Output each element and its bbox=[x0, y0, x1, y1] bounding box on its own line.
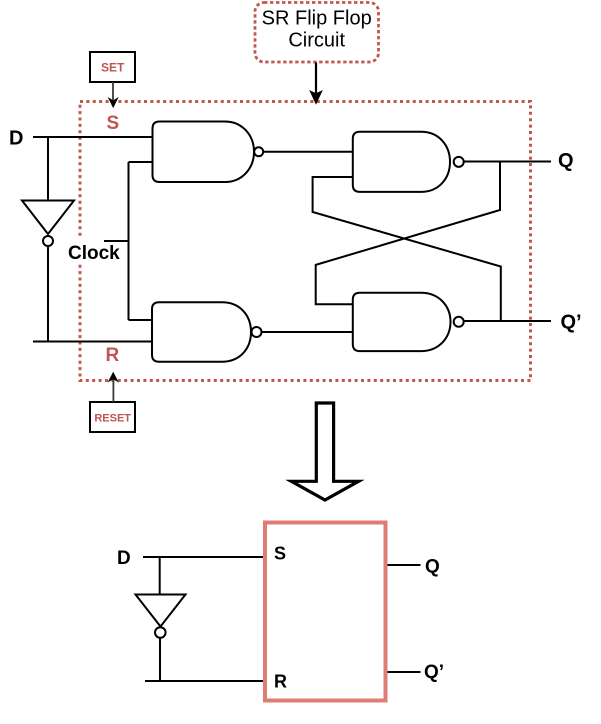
title box: SR Flip Flop Circuit bbox=[255, 3, 379, 63]
svg-text:RESET: RESET bbox=[94, 413, 131, 425]
arrow SET to node S bbox=[109, 82, 118, 107]
wire inverter to R rail bbox=[47, 247, 49, 342]
nand U3 bbox=[152, 302, 262, 361]
svg-text:SR Flip Flop: SR Flip Flop bbox=[262, 8, 372, 30]
wire D rail bbox=[33, 136, 153, 138]
node Clock bbox=[67, 239, 129, 264]
SET label box bbox=[90, 52, 135, 82]
wire Q' (symbol) bbox=[388, 671, 421, 673]
svg-text:S: S bbox=[274, 544, 286, 564]
svg-text:D: D bbox=[9, 127, 23, 149]
wire Q (symbol) bbox=[388, 564, 421, 566]
svg-text:D: D bbox=[117, 548, 131, 569]
wire U1 out to U2 bbox=[263, 151, 353, 153]
nand U4 bbox=[353, 293, 464, 351]
flip-flop block symbol bbox=[265, 523, 386, 701]
wire Q feedback to U4 top input bbox=[316, 162, 500, 305]
svg-text:R: R bbox=[274, 672, 287, 692]
svg-text:Q: Q bbox=[425, 557, 440, 578]
wire Q output bbox=[464, 161, 551, 163]
svg-text:Q: Q bbox=[558, 150, 574, 172]
wire D to inverter bbox=[47, 137, 49, 200]
svg-text:Q’: Q’ bbox=[561, 312, 582, 334]
nand U2 bbox=[353, 132, 464, 192]
svg-text:SET: SET bbox=[101, 61, 125, 75]
svg-text:Circuit: Circuit bbox=[288, 30, 345, 52]
svg-text:R: R bbox=[106, 345, 120, 366]
svg-text:Clock: Clock bbox=[68, 243, 120, 264]
wire clock vertical bbox=[128, 162, 130, 320]
wire clock to U3 bbox=[129, 319, 153, 321]
big transform arrow bbox=[291, 403, 358, 500]
svg-text:S: S bbox=[107, 113, 120, 134]
wire inverter to R rail (symbol) bbox=[159, 639, 161, 682]
svg-text:Q’: Q’ bbox=[424, 662, 444, 683]
arrow from title box to circuit boundary bbox=[310, 63, 322, 104]
wire R rail to R pin bbox=[145, 680, 263, 682]
wire Q' feedback to U2 lower input bbox=[313, 177, 501, 321]
wire D to S pin bbox=[143, 556, 263, 558]
circuit boundary (dotted box) bbox=[80, 102, 531, 381]
wire Q' output bbox=[464, 320, 551, 322]
inverter U5 bbox=[22, 201, 74, 247]
wire clock to U1 bbox=[129, 161, 153, 163]
wire D junction to inverter (symbol) bbox=[159, 557, 161, 595]
arrow RESET to node R bbox=[109, 373, 118, 402]
inverter (symbol section) bbox=[136, 595, 186, 638]
nand U1 bbox=[153, 122, 264, 183]
wire U3 out to U4 bbox=[262, 331, 353, 333]
RESET label box bbox=[90, 402, 135, 432]
wire R rail bbox=[33, 341, 153, 343]
